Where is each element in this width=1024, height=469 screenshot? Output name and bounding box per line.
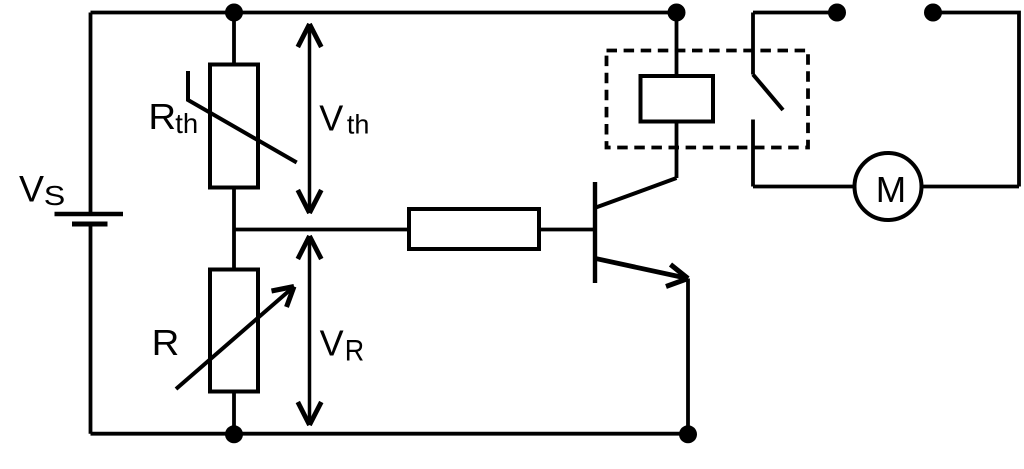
node bottom rail at variable resistor <box>225 425 243 443</box>
thermistor Rth diagonal symbol <box>188 71 297 163</box>
wire switch top terminal <box>753 11 837 15</box>
wire bottom rail <box>91 432 689 436</box>
label VR <box>320 322 365 367</box>
wire top rail <box>91 11 677 15</box>
relay dashed enclosure <box>607 51 809 148</box>
transistor Q1 emitter arrowhead <box>666 265 688 287</box>
relay switch moving arm <box>753 75 783 111</box>
wire between thermistor and variable resistor <box>232 188 236 270</box>
svg-text:V: V <box>319 97 343 138</box>
svg-text:R: R <box>152 322 180 363</box>
svg-text:M: M <box>876 169 906 210</box>
svg-text:V: V <box>320 322 344 363</box>
wire left vertical supply negative <box>89 226 93 434</box>
relay switch lower contact <box>751 120 755 187</box>
relay coil body <box>641 76 714 122</box>
label Rth <box>148 96 198 139</box>
relay switch upper contact <box>751 13 755 75</box>
VR arrowhead top <box>298 236 322 259</box>
variable resistor R arrowhead <box>272 287 295 308</box>
label VS <box>19 167 65 211</box>
svg-text:R: R <box>345 335 364 367</box>
Vth arrow shaft <box>308 24 312 213</box>
wire base resistor to transistor base <box>539 228 595 232</box>
Vth arrowhead bottom <box>298 190 322 213</box>
svg-text:S: S <box>44 180 66 211</box>
transistor Q1 base bar <box>593 182 597 283</box>
VR arrowhead bottom <box>298 402 322 425</box>
svg-text:R: R <box>148 96 176 137</box>
svg-text:th: th <box>175 108 198 139</box>
label Vth <box>319 97 369 139</box>
variable resistor R body <box>210 270 258 392</box>
node switch top terminal <box>828 4 846 22</box>
battery VS short plate <box>72 222 108 227</box>
wire collector to relay coil <box>675 122 679 179</box>
svg-text:V: V <box>19 167 44 209</box>
wire top rail to relay coil <box>675 13 679 77</box>
thermistor Rth body <box>210 65 258 188</box>
wire left vertical supply positive <box>89 13 93 213</box>
motor M circle <box>855 153 922 220</box>
wire top rail to thermistor <box>232 13 236 65</box>
label M <box>876 169 906 210</box>
variable resistor R arrow shaft <box>176 287 294 390</box>
transistor Q1 collector diagonal <box>597 178 677 207</box>
wire emitter to bottom rail <box>686 279 690 435</box>
node top rail at thermistor branch <box>225 4 243 22</box>
node motor branch top terminal <box>924 4 942 22</box>
transistor Q1 emitter diagonal <box>597 259 689 279</box>
wire motor branch top and right vertical <box>933 13 1019 187</box>
wire switch to motor <box>753 185 856 189</box>
wire variable resistor to bottom rail <box>232 392 236 435</box>
wire motor to right vertical <box>920 185 1019 189</box>
wire middle node to base resistor <box>234 228 409 232</box>
node top rail at relay coil <box>668 4 686 22</box>
svg-text:th: th <box>347 110 370 140</box>
base resistor body <box>409 209 539 249</box>
label R <box>152 322 180 363</box>
node bottom rail right end <box>679 425 697 443</box>
battery VS long plate <box>55 212 124 217</box>
VR arrow shaft <box>308 236 312 425</box>
Vth arrowhead top <box>298 24 322 47</box>
